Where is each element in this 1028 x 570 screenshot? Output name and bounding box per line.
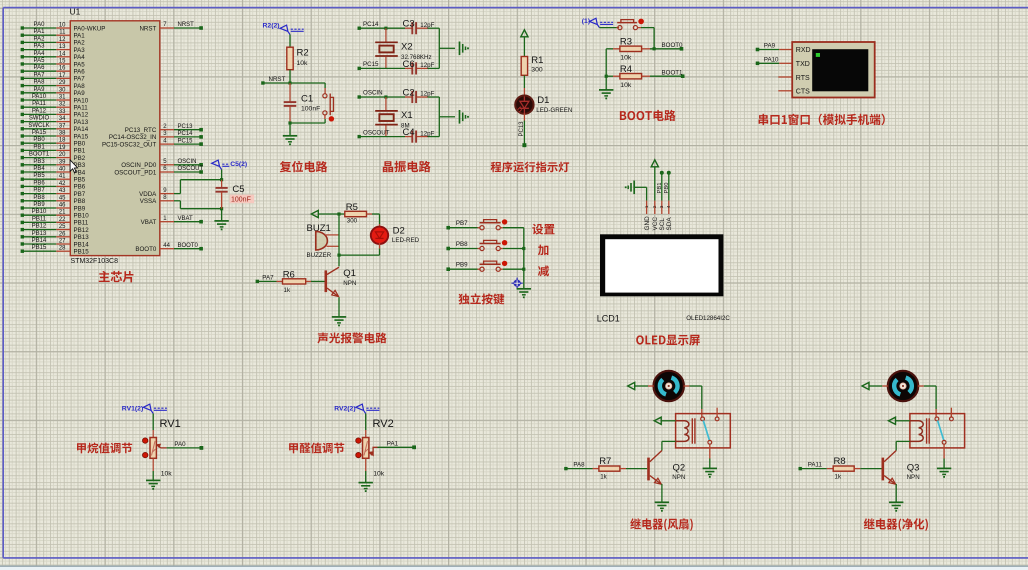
caption sound-light alarm circuit (317, 332, 386, 343)
svg-text:PC14: PC14 (178, 131, 194, 137)
svg-text:PC14-OSC32_IN: PC14-OSC32_IN (109, 134, 156, 141)
svg-text:PB1: PB1 (74, 148, 86, 155)
svg-text:PA12: PA12 (32, 108, 47, 114)
label RV2 (373, 418, 394, 430)
wire R2 top stub (289, 35, 291, 48)
value R3 10k (620, 55, 632, 62)
wire relay coil to Q2 collector (662, 441, 676, 450)
wire Q1 emitter to ground (338, 297, 340, 317)
node X2 top junction (384, 27, 387, 30)
svg-text:Q2: Q2 (673, 462, 686, 473)
svg-text:3: 3 (659, 205, 664, 208)
power arrow relay coil 继电器(净化) (889, 417, 896, 424)
label STM32F103C8 (71, 258, 119, 265)
svg-text:LED-GREEN: LED-GREEN (536, 107, 572, 114)
chip pin 41 PB5 / net PB5 (21, 173, 86, 183)
chip pin 4 PC15-OSC32_OUT / net PC15 (102, 138, 203, 148)
chip pin 30 PA9 / net PA9 (21, 87, 86, 97)
svg-text:29: 29 (59, 80, 66, 86)
svg-text:16: 16 (59, 66, 66, 72)
svg-text:45: 45 (59, 195, 66, 201)
svg-text:NPN: NPN (672, 474, 685, 481)
label Q2 (673, 462, 686, 473)
svg-text:12pF: 12pF (420, 22, 434, 29)
net terminal PA10 (756, 56, 779, 65)
node NRST junction (288, 81, 291, 84)
svg-text:PA10: PA10 (764, 56, 779, 63)
svg-text:SWCLK: SWCLK (28, 123, 49, 129)
svg-text:OSCIN: OSCIN (363, 90, 383, 97)
svg-text:1k: 1k (284, 287, 291, 294)
svg-text:D1: D1 (537, 95, 549, 106)
ground Q3 emitter (889, 502, 903, 511)
wire SDA down (668, 173, 670, 201)
wire RV2 top (365, 414, 367, 438)
ground relay contact 继电器(净化) (937, 468, 951, 477)
virtual-wire label C5(2) (212, 160, 248, 169)
svg-text:BOOT0: BOOT0 (178, 243, 199, 249)
wire reset button to ground rail (290, 115, 325, 123)
svg-text:C5(2): C5(2) (230, 161, 247, 168)
wire junction to Q1 collector (338, 255, 340, 266)
svg-text:PB2: PB2 (74, 155, 86, 162)
svg-text:PA0: PA0 (34, 22, 46, 28)
wire RV2 bottom (365, 458, 367, 482)
svg-text:PA12: PA12 (74, 112, 89, 119)
chip pin 11 PA1 / net PA1 (21, 29, 86, 39)
caption key minus (538, 265, 549, 276)
svg-text:RV2: RV2 (373, 418, 394, 430)
svg-text:R6: R6 (283, 269, 295, 280)
wire PA10 to TXD (758, 62, 793, 64)
svg-text:OSCOUT: OSCOUT (363, 129, 390, 136)
net label PC13 vertical (519, 121, 525, 137)
svg-text:PB4: PB4 (33, 166, 45, 172)
chip pin 27 PB14 / net PB14 (21, 238, 90, 248)
svg-text:LCD1: LCD1 (597, 313, 620, 323)
svg-text:2: 2 (652, 205, 657, 208)
svg-text:R7: R7 (599, 456, 611, 467)
svg-text:40: 40 (59, 167, 66, 173)
ground for C5 (214, 209, 228, 231)
svg-text:R4: R4 (620, 64, 632, 75)
svg-text:PA11: PA11 (74, 105, 89, 112)
pot RV1 up indicator dot (143, 438, 148, 443)
virtual-wire label R2(2) (263, 22, 304, 34)
value Q2 NPN (672, 474, 685, 481)
virtual-wire label (1) (582, 18, 613, 27)
svg-text:10k: 10k (373, 471, 385, 478)
svg-text:PA4: PA4 (34, 51, 46, 57)
wire PC15 rail (359, 67, 439, 69)
svg-text:GND: GND (644, 216, 651, 231)
ground BOOT divider (599, 76, 613, 99)
svg-text:NPN: NPN (343, 280, 356, 287)
label R6 (283, 269, 295, 280)
wire VDDA to C5 (174, 180, 222, 194)
value C6 12pF (420, 62, 434, 69)
svg-text:Q1: Q1 (343, 268, 356, 279)
svg-text:RV1(2): RV1(2) (122, 405, 143, 412)
svg-text:25: 25 (59, 224, 66, 230)
svg-text:PA14: PA14 (74, 126, 89, 133)
label X1 (401, 110, 413, 121)
svg-text:21: 21 (59, 210, 66, 216)
capacitor C2 (412, 91, 416, 103)
wire crystal bottom group right rail (439, 97, 455, 137)
ground OLED GND (rotated) (625, 181, 634, 195)
svg-text:20: 20 (59, 152, 66, 158)
net terminal PC14 (358, 21, 380, 30)
wire power rail to R5 (318, 213, 345, 215)
relay coil 继电器(净化) (910, 418, 929, 443)
net terminal PB8 (446, 241, 468, 250)
ground Q2 emitter (655, 502, 669, 511)
svg-text:VCC: VCC (652, 217, 659, 231)
chip pin 40 PB4 / net PB4 (21, 166, 86, 176)
capacitor C3 (412, 22, 416, 34)
svg-text:OSCOUT: OSCOUT (178, 166, 204, 172)
chip pin 26 PB13 / net PB13 (21, 231, 90, 241)
svg-text:PA8: PA8 (573, 461, 585, 468)
relay coil 继电器(风扇) (676, 418, 695, 443)
svg-text:PB6: PB6 (33, 180, 45, 186)
svg-text:31: 31 (59, 95, 66, 101)
relay box 继电器(风扇) (676, 414, 731, 448)
crystal X2 (375, 28, 398, 68)
terminal SCL dot (660, 171, 664, 175)
wire R2 to NRST node (289, 70, 291, 83)
svg-text:PB9: PB9 (456, 262, 468, 269)
wire power to motor 继电器(风扇) (635, 385, 654, 387)
resistor R4 (606, 74, 683, 79)
svg-text:PB1: PB1 (657, 183, 663, 194)
relay switch arm 继电器(风扇) (703, 421, 709, 441)
OLED pin 2 VCC (652, 201, 659, 231)
wire BOOT button to BOOT0 node (638, 28, 655, 49)
terminal pin label TXD (796, 61, 810, 68)
window bottom edge strip (0, 566, 1028, 570)
chip pin 42 PB6 / net PB6 (21, 180, 86, 190)
pot RV2 up indicator dot (356, 438, 361, 443)
svg-text:34: 34 (59, 116, 66, 122)
svg-text:SDA: SDA (666, 217, 673, 231)
chip pin 19 PB1 / net PB1 (21, 144, 86, 154)
svg-text:C2: C2 (403, 88, 415, 99)
svg-text:RTS: RTS (796, 75, 810, 82)
OLED pin 3 SCL (659, 201, 666, 231)
resistor R2 (287, 47, 293, 69)
svg-text:12: 12 (59, 37, 66, 43)
svg-text:PB15: PB15 (74, 249, 90, 256)
net terminal PA0 (174, 441, 203, 450)
capacitor C5 (216, 180, 228, 209)
chip pin 39 PB3 / net PB3 (21, 159, 86, 169)
svg-text:PA9: PA9 (34, 87, 46, 93)
svg-text:PB0: PB0 (74, 141, 86, 148)
svg-text:PA3: PA3 (74, 47, 86, 54)
svg-text:33: 33 (59, 109, 66, 115)
caption OLED display (636, 335, 700, 346)
net terminal PA9 (756, 43, 776, 52)
svg-text:11: 11 (59, 30, 66, 36)
label RV1 (160, 418, 181, 430)
svg-text:PA0-WKUP: PA0-WKUP (74, 25, 106, 32)
svg-text:PB7: PB7 (74, 191, 86, 198)
wire OSCOUT rail (359, 136, 439, 138)
svg-text:PA1: PA1 (74, 33, 86, 40)
svg-text:300: 300 (347, 218, 358, 225)
svg-text:PB5: PB5 (33, 173, 45, 179)
label C3 (403, 19, 415, 30)
label LCD1 (597, 313, 620, 323)
push button BOOT0 (617, 19, 644, 30)
wire PA9 to RXD (758, 49, 793, 51)
label C2 (403, 88, 415, 99)
chip pin 15 PA5 / net PA5 (21, 58, 86, 68)
chip pin 31 PA10 / net PA10 (21, 94, 89, 104)
value RV2 10k (373, 471, 385, 478)
resistor R6 (257, 279, 324, 284)
label R7 (599, 456, 611, 467)
chip pin 45 PB8 / net PB8 (21, 195, 86, 205)
svg-text:PA13: PA13 (74, 119, 89, 126)
virtual-wire label RV2(2) (334, 404, 379, 413)
svg-text:R5: R5 (346, 202, 358, 213)
label X2 (401, 41, 413, 52)
svg-text:OSCIN_PD0: OSCIN_PD0 (121, 162, 157, 169)
svg-text:PB8: PB8 (33, 195, 45, 201)
resistor R5 (345, 211, 380, 216)
svg-text:BOOT0: BOOT0 (135, 246, 157, 253)
svg-text:PA3: PA3 (34, 44, 46, 50)
chip pin 21 PB10 / net PB10 (21, 209, 90, 219)
svg-text:37: 37 (59, 123, 66, 129)
wire R5 to D2 (379, 214, 381, 228)
relay NO pin 继电器(风扇) (715, 408, 719, 421)
svg-text:PA8: PA8 (34, 80, 46, 86)
push button RESET (323, 94, 334, 122)
transistor Q3 NPN (883, 451, 896, 485)
buzzer BUZ1 (316, 231, 339, 250)
transistor Q1 NPN (326, 267, 339, 296)
resistor R8 (800, 466, 881, 471)
svg-text:43: 43 (59, 188, 66, 194)
ground relay contact 继电器(风扇) (703, 468, 717, 477)
svg-text:PB7: PB7 (456, 220, 468, 227)
wire RV1 wiper to PA0 (167, 447, 202, 449)
svg-text:100nF: 100nF (231, 196, 251, 203)
caption BOOT circuit (620, 110, 676, 121)
ground crystal top group (460, 42, 469, 56)
value R1 300 (531, 67, 543, 74)
caption relay 继电器(净化) (864, 518, 928, 531)
chip pin 3 PC14-OSC32_IN / net PC14 (109, 131, 203, 141)
svg-text:C5: C5 (232, 184, 244, 195)
caption key set (532, 224, 554, 235)
svg-text:R2: R2 (297, 48, 309, 59)
relay common contact 继电器(风扇) (701, 417, 705, 421)
chip pin 17 PA7 / net PA7 (21, 72, 86, 82)
svg-text:R3: R3 (620, 37, 632, 48)
label BUZ1 (307, 223, 331, 234)
wire Q3 emitter to ground (895, 484, 897, 502)
svg-text:TXD: TXD (796, 61, 810, 68)
svg-text:PB14: PB14 (32, 238, 47, 244)
pin RTS stub (778, 76, 792, 78)
svg-text:BUZZER: BUZZER (307, 252, 332, 259)
chip pin 32 PA11 / net PA11 (21, 101, 89, 111)
relay NO pin 继电器(净化) (950, 408, 954, 421)
svg-text:PA0: PA0 (174, 441, 186, 448)
wire D1 to PC13 terminal (523, 113, 525, 144)
caption crystal circuit (383, 161, 431, 173)
resistor R1 (521, 57, 527, 76)
caption main chip (99, 271, 134, 283)
svg-text:PB5: PB5 (74, 177, 86, 184)
terminal PC13 bottom (522, 143, 526, 147)
caption formaldehyde adjust (289, 443, 344, 454)
node R4 left junction (605, 75, 608, 78)
svg-text:PB8: PB8 (74, 198, 86, 205)
label C5 (232, 184, 244, 195)
svg-text:PA9: PA9 (74, 90, 86, 97)
label Q1 (343, 268, 356, 279)
value D2 LED-RED (392, 237, 420, 244)
crystal X1 (375, 97, 398, 137)
chip pin 2 PC13_RTC / net PC13 (125, 124, 203, 134)
mouse cursor (70, 160, 78, 173)
svg-text:38: 38 (59, 131, 66, 137)
node R5 left junction (337, 212, 340, 215)
svg-text:10k: 10k (297, 60, 309, 67)
wire SCL down (661, 173, 663, 201)
svg-text:PA10: PA10 (74, 97, 89, 104)
power arrow relay coil 继电器(风扇) (654, 417, 661, 424)
push button PB9 (448, 261, 524, 272)
svg-text:SWDIO: SWDIO (29, 116, 50, 122)
svg-text:22: 22 (59, 217, 66, 223)
OLED pin 4 SDA (666, 201, 673, 231)
wire D2 to collector rail (339, 243, 380, 255)
svg-text:30: 30 (59, 87, 66, 93)
net terminal BOOT0 (662, 42, 684, 51)
label R5 (346, 202, 358, 213)
ground RV1 (146, 480, 160, 489)
svg-text:PA2: PA2 (74, 40, 86, 47)
chip pin 37 PA14 / net SWCLK (21, 123, 89, 133)
svg-text:PB10: PB10 (32, 209, 47, 215)
IC U1 STM32F103C8 body (70, 21, 160, 256)
svg-text:PB13: PB13 (32, 231, 47, 237)
svg-text:OSCOUT_PD1: OSCOUT_PD1 (114, 169, 157, 176)
svg-text:PB0: PB0 (33, 137, 45, 143)
svg-text:10k: 10k (620, 55, 632, 62)
wire power to relay coil 继电器(净化) (896, 420, 910, 422)
value Q1 NPN (343, 280, 356, 287)
svg-text:1k: 1k (835, 474, 842, 481)
wire RV1 bottom (152, 458, 154, 480)
wire OSCIN rail (359, 96, 439, 98)
value R8 1k (835, 474, 842, 481)
resistor R7 (566, 466, 647, 471)
relay NC contact 继电器(风扇) (708, 440, 712, 444)
svg-text:12pF: 12pF (420, 130, 434, 137)
svg-text:NPN: NPN (907, 474, 920, 481)
svg-text:10k: 10k (161, 471, 173, 478)
net label PB1 vertical (657, 183, 663, 194)
ground reset circuit (283, 123, 297, 145)
svg-text:PC15: PC15 (178, 138, 194, 144)
net terminal PA7 (256, 275, 274, 284)
wire relay coil to Q3 collector (896, 441, 910, 450)
caption key plus (538, 245, 548, 256)
caption serial window (759, 114, 885, 126)
push button PB8 (448, 240, 524, 251)
svg-text:PA4: PA4 (74, 54, 86, 61)
net terminal PB9 (446, 262, 468, 271)
chip pin 28 PB15 / net PB15 (21, 245, 90, 255)
node collector junction (337, 254, 340, 257)
svg-text:PB11: PB11 (32, 216, 47, 222)
origin marker (512, 278, 523, 289)
ground RV2 (359, 483, 373, 492)
svg-text:VBAT: VBAT (178, 216, 194, 222)
chip pin 9 VDDA (139, 188, 174, 198)
svg-text:PA2: PA2 (34, 36, 46, 42)
svg-text:10: 10 (59, 23, 66, 29)
net terminal OSCOUT (358, 129, 390, 138)
svg-text:Q3: Q3 (907, 462, 920, 473)
power arrow motor 继电器(风扇) (628, 382, 635, 389)
svg-text:PA8: PA8 (74, 83, 86, 90)
svg-text:32: 32 (59, 102, 66, 108)
power arrow for LED chain (521, 30, 528, 37)
wire power to relay coil 继电器(风扇) (661, 420, 675, 422)
label R1 (531, 55, 543, 66)
svg-text:RXD: RXD (796, 47, 811, 54)
svg-text:39: 39 (59, 159, 66, 165)
net label PB0 vertical (664, 183, 670, 194)
svg-text:PA15: PA15 (74, 133, 89, 140)
svg-text:PA7: PA7 (262, 275, 274, 282)
caption independent keys (458, 293, 504, 304)
relay common contact 继电器(净化) (935, 417, 939, 421)
svg-text:C1: C1 (301, 93, 313, 104)
label R4 (620, 64, 632, 75)
svg-text:PB8: PB8 (456, 241, 468, 248)
label D1 (537, 95, 549, 106)
value C5 100nF (highlighted) (230, 195, 255, 204)
wire crystal top group right rail (439, 28, 455, 68)
svg-text:PB11: PB11 (74, 220, 89, 227)
svg-text:PA9: PA9 (764, 43, 776, 50)
label R3 (620, 37, 632, 48)
ground crystal bottom group (460, 110, 469, 124)
svg-text:R1: R1 (531, 55, 543, 66)
value C3 12pF (420, 22, 434, 29)
wire relay contact to ground 继电器(风扇) (709, 444, 711, 468)
node C1 bottom junction (288, 121, 291, 124)
svg-text:PC13_RTC: PC13_RTC (125, 127, 157, 134)
terminal SDA dot (667, 171, 671, 175)
value R6 1k (284, 287, 291, 294)
svg-text:VSSA: VSSA (140, 198, 157, 205)
value OLED12864I2C (686, 315, 730, 322)
node keys bus PB8 (522, 247, 525, 250)
svg-text:D2: D2 (393, 225, 405, 236)
svg-text:PB7: PB7 (33, 188, 45, 194)
